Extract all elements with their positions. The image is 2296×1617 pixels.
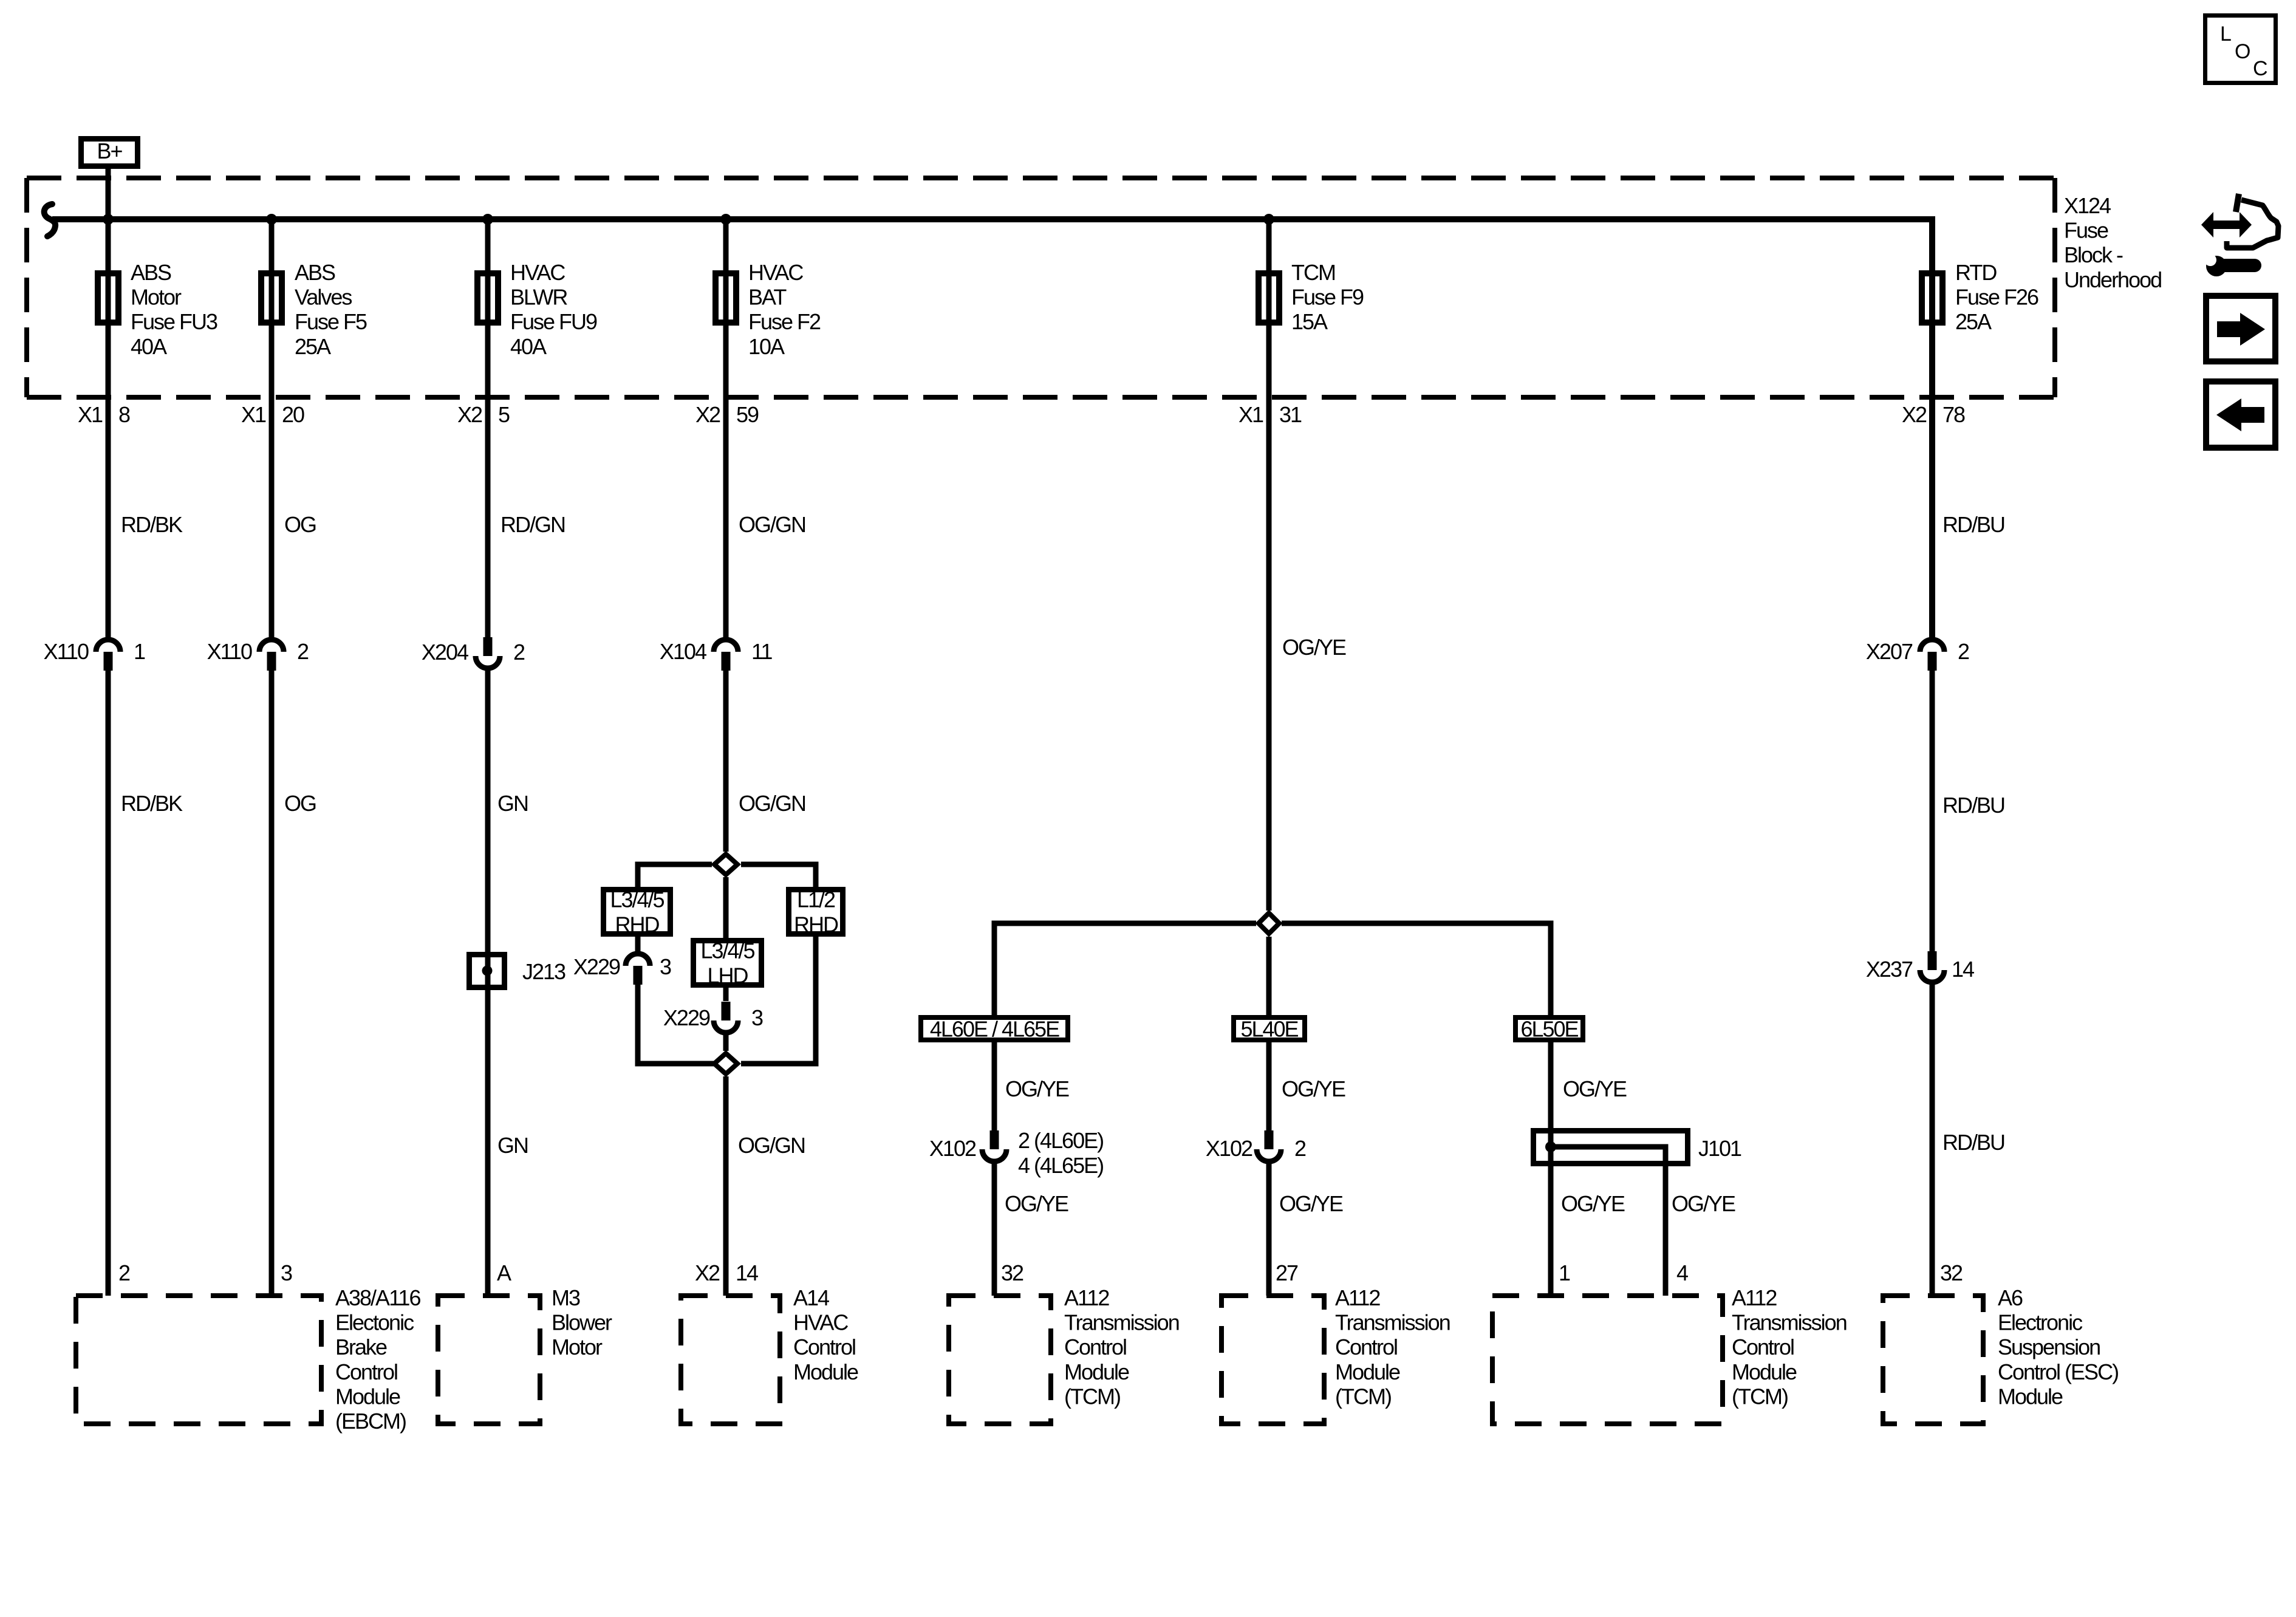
svg-text:1: 1 — [1559, 1260, 1570, 1285]
svg-text:ABS: ABS — [131, 260, 171, 285]
svg-text:Motor: Motor — [552, 1335, 603, 1359]
svg-text:Control: Control — [1335, 1335, 1397, 1359]
svg-text:B+: B+ — [97, 138, 122, 163]
svg-text:32: 32 — [1940, 1260, 1963, 1285]
svg-text:3: 3 — [660, 954, 671, 979]
svg-text:Fuse FU9: Fuse FU9 — [510, 309, 597, 334]
svg-text:OG/YE: OG/YE — [1561, 1191, 1625, 1216]
svg-text:OG: OG — [284, 791, 316, 816]
svg-text:Fuse F26: Fuse F26 — [1955, 285, 2038, 310]
svg-text:Blower: Blower — [552, 1310, 612, 1335]
svg-text:(TCM): (TCM) — [1732, 1384, 1788, 1409]
svg-text:LHD: LHD — [707, 963, 748, 988]
svg-text:Fuse F2: Fuse F2 — [748, 309, 821, 334]
svg-text:31: 31 — [1279, 402, 1302, 427]
svg-text:Motor: Motor — [131, 285, 182, 310]
svg-text:HVAC: HVAC — [793, 1310, 848, 1335]
svg-text:X229: X229 — [663, 1005, 710, 1030]
svg-text:C: C — [2253, 57, 2267, 80]
svg-text:X104: X104 — [660, 639, 706, 664]
svg-text:X110: X110 — [44, 639, 89, 664]
svg-text:Fuse F9: Fuse F9 — [1291, 285, 1364, 310]
svg-text:OG/YE: OG/YE — [1563, 1076, 1627, 1101]
svg-text:78: 78 — [1942, 402, 1965, 427]
svg-text:Module: Module — [1998, 1384, 2063, 1409]
svg-text:2: 2 — [1294, 1136, 1306, 1161]
svg-text:Control: Control — [1064, 1335, 1126, 1359]
svg-text:15A: 15A — [1291, 309, 1328, 334]
svg-text:X229: X229 — [573, 954, 620, 979]
svg-text:X2: X2 — [1902, 402, 1927, 427]
svg-text:OG/YE: OG/YE — [1282, 635, 1346, 660]
svg-text:GN: GN — [497, 1133, 528, 1158]
svg-text:X102: X102 — [1206, 1136, 1252, 1161]
svg-text:2: 2 — [297, 639, 309, 664]
svg-text:3: 3 — [751, 1005, 763, 1030]
svg-text:X1: X1 — [241, 402, 266, 427]
svg-text:GN: GN — [497, 791, 528, 816]
svg-text:M3: M3 — [552, 1285, 580, 1310]
svg-text:L: L — [2220, 22, 2231, 46]
svg-text:X2: X2 — [695, 1260, 720, 1285]
svg-text:RHD: RHD — [615, 912, 660, 937]
svg-text:Control: Control — [793, 1335, 855, 1359]
svg-text:X110: X110 — [207, 639, 252, 664]
svg-text:X237: X237 — [1866, 957, 1913, 982]
svg-text:(TCM): (TCM) — [1064, 1384, 1120, 1409]
svg-text:OG/YE: OG/YE — [1005, 1076, 1069, 1101]
svg-text:Transmission: Transmission — [1335, 1310, 1450, 1335]
svg-text:Control: Control — [1732, 1335, 1794, 1359]
svg-text:5L40E: 5L40E — [1240, 1017, 1298, 1042]
svg-text:Control: Control — [335, 1359, 397, 1384]
svg-text:40A: 40A — [510, 334, 547, 359]
svg-text:Fuse F5: Fuse F5 — [295, 309, 367, 334]
svg-text:A38/A116: A38/A116 — [335, 1285, 420, 1310]
svg-text:Brake: Brake — [335, 1335, 387, 1359]
svg-text:OG/GN: OG/GN — [739, 512, 805, 537]
svg-text:Underhood: Underhood — [2064, 267, 2161, 292]
svg-text:RD/BK: RD/BK — [121, 512, 183, 537]
svg-text:O: O — [2235, 40, 2250, 63]
svg-text:J101: J101 — [1698, 1136, 1741, 1161]
svg-text:OG/YE: OG/YE — [1282, 1076, 1345, 1101]
svg-text:Fuse: Fuse — [2064, 218, 2108, 243]
svg-text:X1: X1 — [78, 402, 103, 427]
svg-text:6L50E: 6L50E — [1520, 1017, 1578, 1042]
svg-text:Valves: Valves — [295, 285, 352, 310]
svg-text:OG/GN: OG/GN — [738, 1133, 805, 1158]
svg-text:BLWR: BLWR — [510, 285, 567, 310]
svg-text:Block -: Block - — [2064, 242, 2123, 267]
svg-text:32: 32 — [1001, 1260, 1023, 1285]
svg-text:RD/BK: RD/BK — [121, 791, 183, 816]
svg-text:ABS: ABS — [295, 260, 335, 285]
svg-text:BAT: BAT — [748, 285, 787, 310]
svg-text:OG: OG — [284, 512, 316, 537]
svg-text:X1: X1 — [1239, 402, 1263, 427]
svg-text:L3/4/5: L3/4/5 — [610, 887, 664, 912]
svg-text:OG/YE: OG/YE — [1672, 1191, 1735, 1216]
svg-text:A112: A112 — [1335, 1285, 1380, 1310]
svg-text:X2: X2 — [457, 402, 482, 427]
svg-text:X2: X2 — [695, 402, 720, 427]
svg-text:Suspension: Suspension — [1998, 1335, 2100, 1359]
svg-text:40A: 40A — [131, 334, 167, 359]
svg-text:HVAC: HVAC — [510, 260, 565, 285]
svg-text:RHD: RHD — [794, 912, 838, 937]
svg-text:10A: 10A — [748, 334, 785, 359]
svg-text:2: 2 — [1958, 639, 1969, 664]
svg-text:X102: X102 — [929, 1136, 976, 1161]
svg-text:1: 1 — [134, 639, 145, 664]
svg-text:L3/4/5: L3/4/5 — [700, 938, 754, 963]
svg-text:L1/2: L1/2 — [797, 887, 835, 912]
svg-text:(TCM): (TCM) — [1335, 1384, 1391, 1409]
svg-text:Fuse FU3: Fuse FU3 — [131, 309, 217, 334]
svg-text:59: 59 — [736, 402, 759, 427]
svg-text:X204: X204 — [422, 640, 468, 665]
svg-text:2 (4L60E): 2 (4L60E) — [1018, 1128, 1103, 1153]
svg-text:27: 27 — [1276, 1260, 1298, 1285]
svg-text:RD/BU: RD/BU — [1942, 512, 2004, 537]
svg-text:4L60E / 4L65E: 4L60E / 4L65E — [930, 1017, 1059, 1042]
svg-text:2: 2 — [118, 1260, 130, 1285]
svg-text:Electronic: Electronic — [1998, 1310, 2083, 1335]
svg-text:14: 14 — [736, 1260, 758, 1285]
svg-text:J213: J213 — [522, 959, 565, 984]
svg-text:8: 8 — [118, 402, 130, 427]
svg-text:RTD: RTD — [1955, 260, 1997, 285]
svg-text:A6: A6 — [1998, 1285, 2023, 1310]
svg-text:4 (4L65E): 4 (4L65E) — [1018, 1153, 1103, 1178]
svg-text:Control (ESC): Control (ESC) — [1998, 1359, 2118, 1384]
svg-text:Transmission: Transmission — [1064, 1310, 1179, 1335]
svg-text:X207: X207 — [1866, 639, 1913, 664]
svg-text:Module: Module — [1335, 1359, 1400, 1384]
svg-text:A14: A14 — [793, 1285, 829, 1310]
svg-text:4: 4 — [1676, 1260, 1688, 1285]
svg-text:Module: Module — [335, 1384, 400, 1409]
svg-text:A: A — [497, 1260, 511, 1285]
svg-text:RD/BU: RD/BU — [1942, 793, 2004, 818]
svg-text:25A: 25A — [1955, 309, 1992, 334]
svg-text:A112: A112 — [1732, 1285, 1777, 1310]
svg-text:14: 14 — [1952, 957, 1974, 982]
svg-text:5: 5 — [498, 402, 510, 427]
svg-text:20: 20 — [282, 402, 304, 427]
svg-text:HVAC: HVAC — [748, 260, 803, 285]
svg-text:Module: Module — [1732, 1359, 1797, 1384]
svg-text:Transmission: Transmission — [1732, 1310, 1847, 1335]
svg-text:OG/YE: OG/YE — [1279, 1191, 1343, 1216]
svg-text:11: 11 — [751, 639, 772, 664]
svg-text:Module: Module — [1064, 1359, 1129, 1384]
svg-text:Module: Module — [793, 1359, 858, 1384]
svg-text:X124: X124 — [2064, 193, 2111, 218]
svg-text:OG/YE: OG/YE — [1005, 1191, 1068, 1216]
svg-text:3: 3 — [281, 1260, 292, 1285]
svg-text:A112: A112 — [1064, 1285, 1109, 1310]
svg-text:25A: 25A — [295, 334, 331, 359]
svg-text:Electonic: Electonic — [335, 1310, 414, 1335]
svg-text:TCM: TCM — [1291, 260, 1335, 285]
svg-text:OG/GN: OG/GN — [739, 791, 805, 816]
svg-text:2: 2 — [513, 640, 525, 665]
svg-text:RD/BU: RD/BU — [1942, 1130, 2004, 1155]
svg-text:RD/GN: RD/GN — [501, 512, 565, 537]
svg-text:(EBCM): (EBCM) — [335, 1409, 406, 1434]
